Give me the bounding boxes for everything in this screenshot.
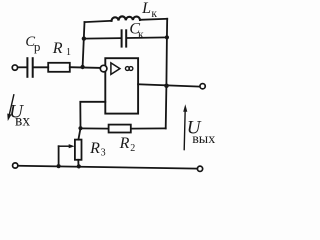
node C junction dot (R2 / R3 / op-amp lower input) xyxy=(78,126,82,130)
label Uvx xyxy=(9,102,30,130)
wire node C to R2 xyxy=(81,127,108,129)
wire top rail left segment xyxy=(85,21,112,22)
node wiper-rail junction dot xyxy=(57,164,61,168)
resistor R3 (potentiometer body) xyxy=(75,140,82,160)
node A junction dot (R1 / feedback / op-amp input) xyxy=(80,65,84,69)
wire input terminal to Cp xyxy=(19,66,26,68)
wire feedback right rail (top corner down to R2 corner) xyxy=(166,19,168,129)
label Uvyx xyxy=(187,117,215,147)
capacitor Cp xyxy=(27,58,32,77)
wire bottom rail xyxy=(18,166,197,169)
label R3 xyxy=(89,140,106,159)
label Ck xyxy=(129,21,144,42)
wire op-amp lower input xyxy=(80,102,105,128)
output terminal (bottom right) xyxy=(197,166,202,171)
op-amp infinity gain symbol xyxy=(125,67,132,71)
wire Ck branch right segment xyxy=(127,36,167,39)
wire node C down to R3 xyxy=(78,128,80,139)
wire Cp to R1 xyxy=(34,66,48,68)
Uvyx arrow (output voltage) xyxy=(183,104,187,149)
svg-text:3: 3 xyxy=(101,148,106,159)
wire R1 to op-amp input xyxy=(70,66,101,69)
capacitor Ck xyxy=(122,30,127,46)
svg-text:L: L xyxy=(141,0,151,17)
output terminal (top right) xyxy=(200,84,205,89)
svg-text:вых: вых xyxy=(192,132,215,147)
op-amp U1 body xyxy=(105,58,138,113)
input terminal (left, signal) xyxy=(12,65,17,70)
label R2 xyxy=(119,135,136,154)
wire top rail right segment xyxy=(140,19,167,20)
op-amp inverting input bubble xyxy=(100,65,107,72)
wire Ck branch left segment xyxy=(84,37,121,40)
svg-text:R: R xyxy=(52,40,63,57)
label R1 xyxy=(52,40,71,58)
Uvx arrow (input voltage) xyxy=(7,95,14,121)
svg-text:1: 1 xyxy=(66,47,71,58)
ground terminal (bottom left) xyxy=(13,163,18,168)
inductor Lk xyxy=(112,16,141,20)
svg-text:2: 2 xyxy=(130,143,135,154)
node feedback left Ck tap junction dot xyxy=(82,36,86,40)
node R3-rail junction dot xyxy=(77,164,81,168)
resistor R1 xyxy=(48,63,70,72)
potentiometer wiper arrow xyxy=(59,144,75,148)
svg-text:вх: вх xyxy=(15,113,30,130)
svg-text:к: к xyxy=(138,29,144,41)
wire op-amp output xyxy=(138,84,199,86)
op-amp input triangle symbol xyxy=(111,63,120,75)
label Cp xyxy=(25,34,40,54)
wire R2 to feedback rail corner xyxy=(132,127,166,129)
label Lk xyxy=(141,0,157,20)
wire feedback left rail (node A up to top corner) xyxy=(83,22,85,67)
node feedback right Ck tap junction dot xyxy=(165,35,169,39)
resistor R2 xyxy=(109,125,131,133)
wire wiper down to bottom rail xyxy=(58,146,60,166)
wire R3 bottom to rail xyxy=(77,160,79,167)
svg-text:р: р xyxy=(34,39,41,54)
svg-text:R: R xyxy=(119,135,130,152)
svg-text:R: R xyxy=(89,140,100,157)
node B junction dot (output / feedback rail) xyxy=(164,84,169,89)
